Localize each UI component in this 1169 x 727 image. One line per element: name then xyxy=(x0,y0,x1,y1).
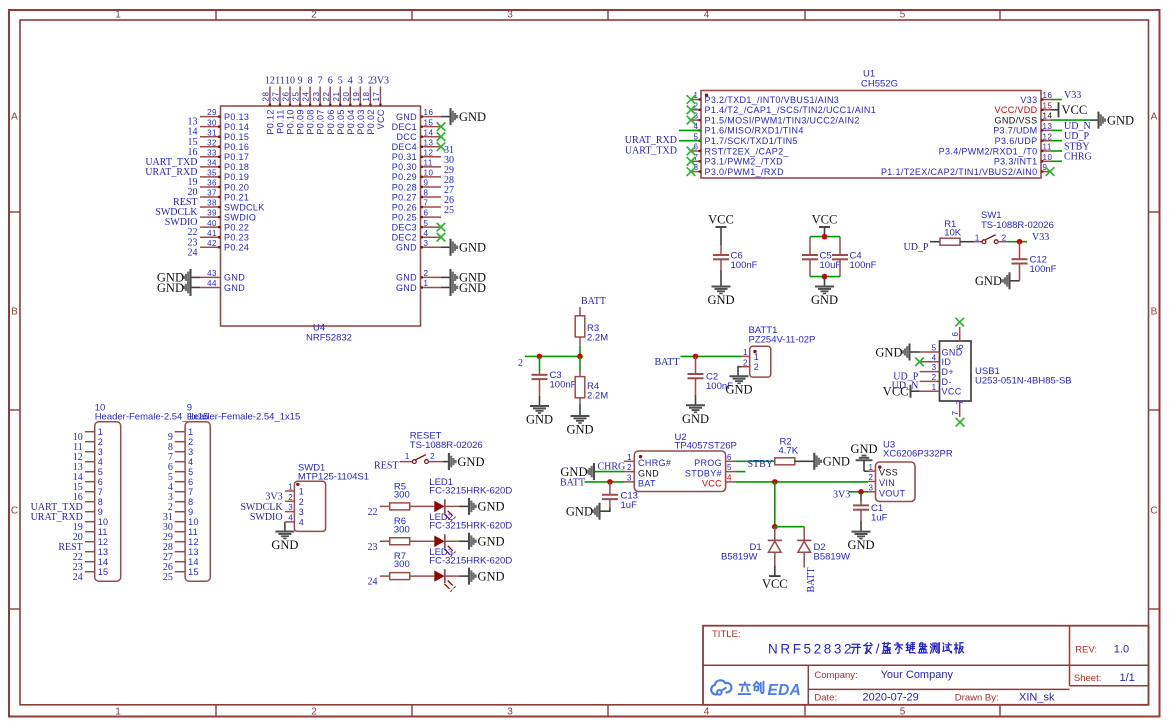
svg-text:U253-051N-4BH85-SB: U253-051N-4BH85-SB xyxy=(975,376,1072,387)
junction at C1 xyxy=(858,489,864,495)
svg-text:1: 1 xyxy=(754,352,759,362)
power flag VCC at U1 pin 15 xyxy=(1051,102,1087,117)
net label STBY xyxy=(748,459,774,470)
net label V33 at SW1 xyxy=(1032,232,1049,243)
ground flag below C6 xyxy=(707,270,734,307)
svg-text:14: 14 xyxy=(188,557,199,567)
title block xyxy=(703,626,1149,705)
svg-text:4: 4 xyxy=(288,514,293,523)
svg-text:10: 10 xyxy=(98,517,109,527)
svg-text:2: 2 xyxy=(299,497,304,507)
svg-text:7: 7 xyxy=(98,487,103,497)
svg-text:ID: ID xyxy=(942,357,952,367)
svg-text:2.2M: 2.2M xyxy=(587,333,608,344)
svg-text:D+: D+ xyxy=(942,367,954,377)
wire BATT1 pin 2 to GND xyxy=(738,367,742,377)
svg-text:DEC1: DEC1 xyxy=(392,122,417,132)
net label CHRG xyxy=(1064,152,1092,163)
wire R1 to SW1 xyxy=(960,241,982,243)
svg-text:4: 4 xyxy=(299,517,304,527)
net label UART_TXD xyxy=(625,145,677,156)
wire to R6 xyxy=(380,540,390,542)
diode D2 B5819W xyxy=(797,527,850,568)
resistor R1 10K xyxy=(940,219,962,245)
capacitor C12 xyxy=(1012,242,1057,281)
svg-text:VCC: VCC xyxy=(883,385,909,399)
svg-text:24: 24 xyxy=(302,92,311,102)
svg-text:9: 9 xyxy=(98,507,103,517)
svg-text:16: 16 xyxy=(1043,91,1053,100)
ground flag at SWD1 xyxy=(271,532,298,552)
svg-text:1: 1 xyxy=(288,483,293,492)
svg-text:URAT_RXD: URAT_RXD xyxy=(625,135,677,146)
svg-text:VCC: VCC xyxy=(708,213,734,227)
svg-text:100nF: 100nF xyxy=(1030,264,1057,275)
ground flag at U2 pin 2 xyxy=(560,463,594,480)
wire R2 to GND xyxy=(795,460,814,462)
connector USB1 U253-051N-4BH85-SB body xyxy=(940,341,1072,401)
ground flag at C12 xyxy=(975,272,1010,289)
svg-text:44: 44 xyxy=(207,279,217,288)
wire U1 pin 14 to GND xyxy=(1051,119,1098,121)
svg-text:VCC/VDD: VCC/VDD xyxy=(995,105,1038,115)
svg-text:10uF: 10uF xyxy=(820,260,842,271)
svg-text:100nF: 100nF xyxy=(731,260,758,271)
svg-text:UART_TXD: UART_TXD xyxy=(625,145,677,156)
svg-text:4: 4 xyxy=(704,10,710,21)
capacitor C6 xyxy=(713,245,758,271)
capacitor C2 xyxy=(688,356,734,395)
svg-text:7: 7 xyxy=(188,487,193,497)
net label BATT vertical at D2 xyxy=(806,568,817,593)
resistor R3 2.2M xyxy=(575,307,608,346)
svg-text:6: 6 xyxy=(955,344,965,349)
svg-text:1: 1 xyxy=(975,234,980,243)
ground flag at U4 pin 44 xyxy=(157,279,191,296)
svg-text:BATT: BATT xyxy=(655,357,680,368)
svg-text:P3.7/UDM: P3.7/UDM xyxy=(993,126,1037,136)
svg-text:P3.6/UDP: P3.6/UDP xyxy=(995,136,1038,146)
svg-text:/: / xyxy=(876,641,880,656)
switch RESET TS-1088R-02026 xyxy=(400,431,483,464)
svg-text:GND: GND xyxy=(850,442,877,456)
junction at C13 xyxy=(607,479,613,485)
svg-text:CHRG#: CHRG# xyxy=(638,458,671,468)
svg-text:6: 6 xyxy=(727,453,732,462)
Company label and value xyxy=(814,669,953,681)
svg-text:GND: GND xyxy=(526,413,553,427)
svg-text:4: 4 xyxy=(424,229,429,238)
net label 3V3 at U3 xyxy=(833,490,850,501)
junction at R3 R4 xyxy=(577,354,583,360)
EasyEDA logo text xyxy=(739,682,802,699)
net label 2 xyxy=(518,358,523,369)
svg-text:P0.07: P0.07 xyxy=(316,109,326,134)
svg-text:MTP125-1104S1: MTP125-1104S1 xyxy=(298,471,369,482)
resistor R2 4.7K xyxy=(775,436,799,465)
svg-text:XIN_sk: XIN_sk xyxy=(1019,692,1055,704)
svg-text:2: 2 xyxy=(288,493,293,502)
net label 22 at R5 xyxy=(368,507,378,518)
svg-text:3: 3 xyxy=(98,447,103,457)
net label CHRG xyxy=(598,461,626,472)
ground flag at RESET xyxy=(449,453,485,470)
resistor R6 300 xyxy=(390,516,410,545)
svg-text:8: 8 xyxy=(188,497,193,507)
svg-text:Header-Female-2.54_1x15: Header-Female-2.54_1x15 xyxy=(187,412,301,423)
ground flag at LED3 xyxy=(469,568,505,585)
svg-text:5: 5 xyxy=(900,707,906,718)
net label BATT at C2 xyxy=(655,357,680,368)
svg-text:6: 6 xyxy=(951,332,960,337)
svg-text:XC6206P332PR: XC6206P332PR xyxy=(883,449,953,460)
svg-text:14: 14 xyxy=(424,128,434,137)
svg-text:15: 15 xyxy=(424,118,434,127)
svg-text:16: 16 xyxy=(424,108,434,117)
ground flag below C2 xyxy=(682,395,709,426)
diode D1 B5819W xyxy=(721,527,782,566)
ground flag at LED1 xyxy=(469,498,505,515)
net label STBY xyxy=(1064,141,1090,152)
svg-text:10: 10 xyxy=(285,75,295,86)
svg-text:P0.31: P0.31 xyxy=(392,152,417,162)
svg-text:12: 12 xyxy=(265,75,275,86)
svg-text:REST: REST xyxy=(374,461,398,472)
U4 left pins 29-42 xyxy=(200,108,265,252)
svg-text:P0.16: P0.16 xyxy=(224,142,249,152)
svg-text:26: 26 xyxy=(282,92,291,102)
svg-text:P3.4/PWM2/RXD1_/T0: P3.4/PWM2/RXD1_/T0 xyxy=(939,146,1038,156)
svg-text:10K: 10K xyxy=(944,227,962,238)
svg-text:VCC: VCC xyxy=(942,387,962,397)
wire to R7 xyxy=(380,575,390,577)
svg-text:4.7K: 4.7K xyxy=(779,446,799,457)
svg-text:2: 2 xyxy=(311,10,317,21)
wire R5 to LED1 xyxy=(410,505,435,507)
svg-text:V33: V33 xyxy=(1020,95,1037,105)
svg-text:2: 2 xyxy=(869,473,874,482)
svg-text:BAT: BAT xyxy=(638,479,656,489)
svg-text:2: 2 xyxy=(627,463,632,472)
svg-text:33: 33 xyxy=(207,148,217,157)
connector SWD1 MTP125-1104S1 xyxy=(285,462,369,531)
svg-text:13: 13 xyxy=(98,547,109,557)
svg-text:5: 5 xyxy=(900,10,906,21)
svg-text:13: 13 xyxy=(424,138,434,147)
net label UD_N xyxy=(1064,121,1091,132)
title text NRF52832 blue xyxy=(768,641,854,656)
svg-text:100nF: 100nF xyxy=(850,260,877,271)
svg-text:C: C xyxy=(1150,506,1157,517)
svg-text:100nF: 100nF xyxy=(550,380,577,391)
svg-text:TITLE:: TITLE: xyxy=(712,629,741,640)
svg-text:12: 12 xyxy=(98,537,109,547)
svg-text:GND: GND xyxy=(707,293,734,307)
svg-text:CHRG: CHRG xyxy=(598,461,626,472)
svg-text:NRF52832: NRF52832 xyxy=(768,641,854,656)
svg-text:TS-1088R-02026: TS-1088R-02026 xyxy=(981,220,1054,231)
svg-text:42: 42 xyxy=(207,239,217,248)
net label BATT above R3 xyxy=(581,296,606,307)
svg-text:3: 3 xyxy=(869,483,874,492)
svg-text:P0.23: P0.23 xyxy=(224,233,249,243)
junction at C3 xyxy=(537,354,543,360)
svg-text:3: 3 xyxy=(932,363,937,372)
svg-text:3V3: 3V3 xyxy=(372,75,389,86)
svg-text:27: 27 xyxy=(272,92,281,102)
svg-text:GND: GND xyxy=(459,110,486,124)
svg-text:2: 2 xyxy=(430,452,435,461)
svg-text:1: 1 xyxy=(932,383,937,392)
svg-text:P1.7/SCK/TXD1/TIN5: P1.7/SCK/TXD1/TIN5 xyxy=(705,136,798,146)
resistor R7 300 xyxy=(390,551,410,580)
svg-text:P0.14: P0.14 xyxy=(224,122,249,132)
svg-text:SWDIO: SWDIO xyxy=(224,212,256,222)
wire LED3 to GND xyxy=(445,575,469,577)
svg-text:1uF: 1uF xyxy=(871,513,888,524)
svg-text:P0.13: P0.13 xyxy=(224,112,249,122)
svg-text:B5819W: B5819W xyxy=(814,551,850,562)
power flag VCC at USB1 pin 1 xyxy=(883,385,920,399)
svg-text:P0.20: P0.20 xyxy=(224,182,249,192)
capacitor C3 xyxy=(532,356,577,396)
junction below C5 C4 xyxy=(822,274,828,280)
wire stub at U1 pin 13 xyxy=(1051,129,1062,131)
U4 right pins xyxy=(392,108,441,293)
IC U1 CH552G body xyxy=(701,69,1041,179)
ground flag below C3 xyxy=(526,396,553,427)
U3 pins xyxy=(868,463,906,499)
svg-text:43: 43 xyxy=(207,269,217,278)
LED LED2 FC-3215HRK-620D xyxy=(429,512,512,557)
svg-text:3: 3 xyxy=(288,503,293,512)
svg-text:23: 23 xyxy=(368,542,378,553)
svg-text:4: 4 xyxy=(727,474,732,483)
wire stub U2 pin 5 xyxy=(736,471,745,473)
svg-text:P0.24: P0.24 xyxy=(224,243,249,253)
svg-text:37: 37 xyxy=(207,189,217,198)
svg-text:1: 1 xyxy=(115,10,121,21)
svg-text:VCC: VCC xyxy=(1062,103,1088,117)
wire stub at U1 pin 10 xyxy=(1051,160,1062,162)
U4 pins 43,44 GND xyxy=(191,269,246,293)
power flag VCC below D1 xyxy=(762,565,788,591)
LED LED3 FC-3215HRK-620D xyxy=(429,547,512,592)
junction at C12 top xyxy=(1017,239,1023,245)
svg-text:GND: GND xyxy=(478,569,505,583)
IC U4 NRF52832 body xyxy=(221,106,421,344)
no-connect X on U1 pins 1,2,3,6,7,8 xyxy=(687,95,696,176)
svg-text:P0.09: P0.09 xyxy=(296,109,306,134)
svg-text:DEC3: DEC3 xyxy=(392,222,417,232)
ground flag at U4 right pin 1 xyxy=(441,279,486,296)
no-connect X above USB1 pin 6 xyxy=(955,318,964,327)
svg-text:GND: GND xyxy=(566,423,593,437)
svg-text:32: 32 xyxy=(207,138,217,147)
svg-text:7: 7 xyxy=(951,411,960,416)
svg-text:30: 30 xyxy=(207,118,217,127)
svg-text:GND: GND xyxy=(1107,113,1134,127)
svg-text:FC-3215HRK-620D: FC-3215HRK-620D xyxy=(429,486,512,497)
svg-text:9: 9 xyxy=(424,179,429,188)
svg-text:TS-1088R-02026: TS-1088R-02026 xyxy=(410,440,483,451)
net label 23 at R6 xyxy=(368,542,378,553)
svg-text:P0.22: P0.22 xyxy=(224,222,249,232)
wire C5 C4 to GND xyxy=(810,276,840,278)
wire LED2 to GND xyxy=(445,540,469,542)
svg-text:PROG: PROG xyxy=(694,458,722,468)
svg-text:P0.28: P0.28 xyxy=(392,182,417,192)
Sheet label and value xyxy=(1074,672,1135,684)
wire UD_P to R1 xyxy=(930,241,940,243)
U1 left pins 1-8 xyxy=(691,91,876,177)
J10 net labels xyxy=(31,432,83,583)
wire SWD1 pin 4 to GND xyxy=(284,522,286,532)
IC U3 XC6206P332PR body xyxy=(876,440,953,502)
svg-text:1: 1 xyxy=(405,452,410,461)
svg-text:GND: GND xyxy=(566,505,593,519)
wire R7 to LED3 xyxy=(410,575,435,577)
wire net V33 at U1 pin 16 xyxy=(1051,99,1062,101)
svg-text:B: B xyxy=(11,307,18,318)
ground flag at U1 pin 14 xyxy=(1099,112,1135,129)
svg-text:P0.15: P0.15 xyxy=(224,132,249,142)
svg-text:GND: GND xyxy=(478,535,505,549)
svg-text:3: 3 xyxy=(424,239,429,248)
svg-text:5: 5 xyxy=(188,467,193,477)
wire net BATT to U2 pin 3 xyxy=(585,481,625,483)
wire R6 to LED2 xyxy=(410,540,435,542)
svg-text:21: 21 xyxy=(332,92,341,102)
svg-text:10: 10 xyxy=(1043,153,1053,162)
svg-text:11: 11 xyxy=(275,75,285,86)
ground flag at R2 xyxy=(814,453,850,470)
svg-text:P0.10: P0.10 xyxy=(286,109,296,134)
svg-text:C: C xyxy=(11,506,18,517)
ground flag at U4 right pin 3 xyxy=(441,239,486,256)
svg-text:P0.17: P0.17 xyxy=(224,152,249,162)
svg-text:13: 13 xyxy=(1043,122,1053,131)
svg-text:GND: GND xyxy=(459,281,486,295)
svg-text:Drawn By:: Drawn By: xyxy=(955,693,999,704)
IC U2 TP4057ST26P body xyxy=(634,432,737,492)
svg-text:2: 2 xyxy=(311,707,317,718)
svg-text:2: 2 xyxy=(743,358,748,367)
ground flag at U4 pin 43 xyxy=(157,269,191,286)
svg-text:8: 8 xyxy=(308,75,313,86)
svg-text:1: 1 xyxy=(98,427,103,437)
svg-text:20: 20 xyxy=(342,92,351,102)
net label 24 at R7 xyxy=(368,577,378,588)
USB1 top pin 6 xyxy=(951,327,965,349)
svg-text:31: 31 xyxy=(207,128,217,137)
svg-text:11: 11 xyxy=(188,527,198,537)
no-connect X on USB1 pin 4 xyxy=(915,358,924,367)
svg-text:STDBY#: STDBY# xyxy=(685,468,722,478)
svg-text:P1.1/T2EX/CAP2/TIN1/VBUS2/AIN0: P1.1/T2EX/CAP2/TIN1/VBUS2/AIN0 xyxy=(881,167,1038,177)
svg-text:5: 5 xyxy=(932,344,937,353)
wire net UART_TXD to U1 pin 5 xyxy=(679,140,701,142)
svg-text:1: 1 xyxy=(627,453,632,462)
net label URAT_RXD xyxy=(625,135,677,146)
svg-text:RST/T2EX_/CAP2_: RST/T2EX_/CAP2_ xyxy=(705,146,790,156)
svg-text:3: 3 xyxy=(507,10,513,21)
svg-text:FC-3215HRK-620D: FC-3215HRK-620D xyxy=(429,521,512,532)
svg-text:6: 6 xyxy=(424,209,429,218)
EasyEDA logo cloud xyxy=(711,680,731,694)
svg-text:5: 5 xyxy=(727,463,732,472)
svg-text:3: 3 xyxy=(507,707,513,718)
svg-text:GND: GND xyxy=(847,538,874,552)
svg-text:A: A xyxy=(11,112,18,123)
ground flag at C13 xyxy=(566,503,600,520)
ground flag at U4 right pin 16 xyxy=(441,108,486,125)
svg-text:24: 24 xyxy=(368,577,378,588)
svg-text:SWDIO: SWDIO xyxy=(250,512,283,523)
svg-text:1: 1 xyxy=(299,487,304,497)
svg-text:EDA: EDA xyxy=(768,682,802,699)
svg-text:14: 14 xyxy=(1043,112,1053,121)
junction at C2 top xyxy=(693,354,699,360)
wire C12 to GND xyxy=(1010,280,1020,282)
svg-text:23: 23 xyxy=(312,92,321,102)
svg-text:GND: GND xyxy=(224,283,245,293)
svg-text:A: A xyxy=(1151,112,1158,123)
svg-text:12: 12 xyxy=(424,148,434,157)
svg-text:6: 6 xyxy=(328,75,333,86)
ground flag below R4 xyxy=(566,404,593,437)
svg-text:P0.19: P0.19 xyxy=(224,172,249,182)
wire U2 pin 6 to R2 xyxy=(736,460,775,462)
svg-text:STBY: STBY xyxy=(748,459,774,470)
svg-text:P3.0/PWM1_/RXD: P3.0/PWM1_/RXD xyxy=(705,167,785,177)
svg-text:P0.08: P0.08 xyxy=(306,109,316,134)
svg-text:4: 4 xyxy=(98,457,103,467)
svg-text:41: 41 xyxy=(207,229,217,238)
junction at VCC C5 C4 xyxy=(822,234,828,240)
svg-text:SWDCLK: SWDCLK xyxy=(224,202,265,212)
svg-text:13: 13 xyxy=(188,547,199,557)
svg-text:GND: GND xyxy=(975,274,1002,288)
svg-text:3V3: 3V3 xyxy=(833,490,850,501)
svg-text:12: 12 xyxy=(188,537,199,547)
svg-text:2: 2 xyxy=(98,437,103,447)
ground flag at U4 right pin 2 xyxy=(441,269,486,286)
svg-text:CH552G: CH552G xyxy=(861,78,898,89)
svg-text:P3.1/PWM2_/TXD: P3.1/PWM2_/TXD xyxy=(705,157,784,167)
ground flag at LED2 xyxy=(469,533,505,550)
wire R3 to node xyxy=(579,346,581,357)
svg-text:7: 7 xyxy=(318,75,323,86)
resistor R4 2.2M xyxy=(575,356,608,404)
svg-text:Sheet:: Sheet: xyxy=(1074,673,1101,684)
svg-text:7: 7 xyxy=(424,199,429,208)
svg-text:P1.5/MOSI/PWM1/TIN3/UCC2/AIN2: P1.5/MOSI/PWM1/TIN3/UCC2/AIN2 xyxy=(705,115,860,125)
svg-text:GND: GND xyxy=(875,345,902,359)
svg-text:14: 14 xyxy=(98,557,109,567)
LED LED1 FC-3215HRK-620D xyxy=(429,477,512,522)
svg-text:1uF: 1uF xyxy=(621,500,638,511)
U4 top pins 28-17 xyxy=(262,87,387,135)
svg-text:P0.02: P0.02 xyxy=(366,109,376,134)
REV label and value xyxy=(1075,644,1129,656)
net label UD_N at USB1 xyxy=(892,381,919,392)
svg-text:PZ254V-11-02P: PZ254V-11-02P xyxy=(749,334,816,345)
svg-text:BATT: BATT xyxy=(560,478,585,489)
ground flag at USB1 pin 5 xyxy=(875,344,909,361)
Drawn By label and value xyxy=(955,692,1055,704)
wire stub at U1 pin 11 xyxy=(1051,150,1062,152)
